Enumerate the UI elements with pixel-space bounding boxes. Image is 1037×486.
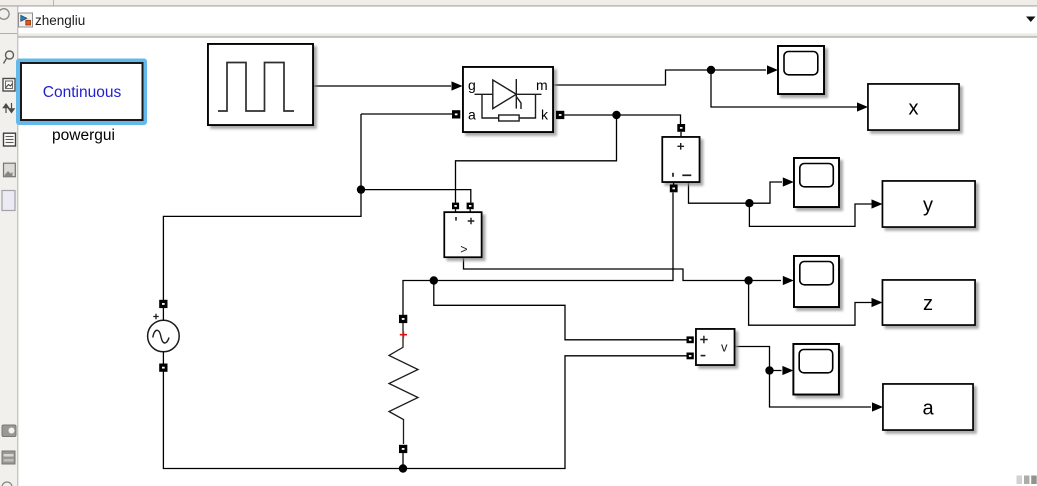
- node J6 y: [745, 199, 753, 207]
- powergui block (selected): [16, 59, 147, 126]
- thyristor k output port: [556, 111, 564, 119]
- block x: [868, 84, 959, 130]
- wire y junction to scope2: [749, 182, 782, 203]
- block y: [883, 181, 976, 227]
- wire node B to Vr + port: [434, 281, 687, 340]
- sidebar icon: magnifier: [4, 51, 14, 64]
- tab bar white: [18, 7, 1037, 34]
- svg-text:x: x: [909, 98, 919, 120]
- top lead: [402, 323, 404, 347]
- sine squiggle: [153, 330, 169, 343]
- thyristor block U1: [463, 67, 553, 132]
- Vab left port: [452, 203, 459, 213]
- arrow into scope4: [782, 366, 793, 375]
- Vab right port: [467, 203, 474, 213]
- sidebar icon: list document: [4, 133, 16, 146]
- rotated minus dash: [682, 174, 691, 176]
- sidebar icon: layers: [2, 451, 15, 464]
- block a: [883, 384, 973, 430]
- plus label: [677, 143, 684, 150]
- zigzag: [389, 347, 418, 444]
- bottom-right resize grip: [1017, 476, 1037, 485]
- svg-text:zhengliu: zhengliu: [35, 13, 85, 28]
- wire node K down to Vab left port: [456, 115, 617, 203]
- scope4: [793, 344, 839, 395]
- wire Vab output to scope3 z row: [464, 257, 782, 280]
- pulse generator block: [208, 44, 313, 125]
- sidebar icon: bottom partial circle: [2, 482, 12, 486]
- svg-text:z: z: [923, 293, 933, 315]
- wire node A to Vab + port: [361, 190, 471, 203]
- node B: [430, 276, 438, 284]
- arrow into thyristor g: [452, 81, 463, 90]
- tick label: [455, 217, 457, 221]
- svg-text:a: a: [922, 398, 934, 420]
- Vr - port: [687, 353, 694, 360]
- left sidebar: [0, 7, 18, 486]
- wire resistor bottom to bus: [402, 453, 404, 469]
- arrowheads: [452, 65, 884, 411]
- resistor bottom port: [399, 445, 407, 453]
- sidebar icon: image box: [3, 79, 15, 92]
- arrow into block z: [872, 298, 883, 307]
- wire junction to block x: [711, 70, 857, 107]
- wire Vr v output to a row junction: [735, 347, 782, 371]
- rotated v tick: [672, 173, 674, 177]
- svg-text:k: k: [541, 107, 549, 123]
- arrow into scope1: [767, 65, 778, 74]
- svg-text:a: a: [468, 107, 476, 123]
- wire bottom bus: source - to Vr - port: [163, 356, 686, 469]
- block z: [883, 280, 976, 325]
- resistor R1: [389, 323, 418, 444]
- scope2: [794, 158, 839, 207]
- snubber path: [482, 94, 499, 118]
- resistor top port: [399, 315, 407, 323]
- scope3: [794, 256, 839, 307]
- wire thyristor k to node K: [564, 114, 617, 116]
- thyristor a input port: [452, 110, 460, 118]
- Vak + port: [677, 124, 685, 136]
- wire y junction to block y: [749, 203, 871, 226]
- node R-bus: [399, 464, 407, 472]
- Vak measurement block (rotated, + top): [662, 137, 699, 182]
- sidebar icon: thumbnail: [4, 163, 16, 177]
- node J1: [707, 66, 715, 74]
- wire pulse to thyristor gate g: [313, 85, 451, 87]
- thyristor symbol: [475, 79, 542, 121]
- red polarity plus: [400, 331, 407, 338]
- minus label: [701, 355, 706, 357]
- svg-text:y: y: [923, 195, 933, 217]
- scope1: [778, 46, 824, 94]
- arrow into block a: [872, 402, 883, 411]
- arrow into scope3: [783, 276, 794, 285]
- wire thyristor m to scope1 junction: [553, 70, 766, 85]
- tab separator top: [53, 0, 55, 6]
- wire Vak - port down to node B: [434, 193, 673, 281]
- svg-text:v: v: [721, 340, 728, 355]
- Vr voltage measurement block: [696, 329, 735, 365]
- node A: [357, 185, 365, 193]
- tab bar bottom band: [18, 34, 1037, 37]
- leads: [162, 308, 164, 320]
- arrow into block x: [857, 102, 868, 111]
- node J7 z: [744, 276, 752, 284]
- sidebar icon: pan (partial circle): [0, 9, 9, 20]
- node K: [612, 111, 620, 119]
- node J8 a: [765, 366, 773, 374]
- arrow into block y: [872, 199, 883, 208]
- tab dropdown arrow: [1026, 17, 1036, 23]
- svg-text:m: m: [536, 77, 548, 93]
- wire node A to thyristor a port: [361, 113, 452, 115]
- svg-text:powergui: powergui: [52, 127, 115, 144]
- Vab measurement block (rotated, + top): [444, 212, 481, 257]
- polarity mark: [153, 314, 158, 319]
- AC voltage source V1: [148, 308, 180, 364]
- sidebar icon: swap arrows: [3, 103, 14, 113]
- source + port: [159, 300, 167, 308]
- source - port: [159, 364, 167, 372]
- svg-text:>: >: [460, 243, 467, 257]
- wire source + up to node A: [163, 114, 361, 300]
- arrow into scope2: [783, 177, 794, 186]
- sidebar icon: empty slot: [2, 191, 15, 211]
- tab model icon: [19, 13, 33, 27]
- pulse wave icon: [218, 63, 294, 112]
- svg-text:g: g: [468, 77, 476, 93]
- wire Vak v output to y row junction: [689, 182, 750, 203]
- Vak - port: [670, 182, 678, 192]
- svg-text:Continuous: Continuous: [43, 84, 122, 101]
- Vr + port: [687, 336, 694, 343]
- sidebar icon: camera: [2, 425, 16, 437]
- plus label: [700, 336, 708, 344]
- plus label: [468, 218, 475, 225]
- wire z junction to block z: [749, 281, 872, 326]
- top strip: [0, 0, 1037, 6]
- wire a junction to block a: [770, 371, 872, 408]
- wire node B to resistor top: [403, 281, 434, 316]
- wire node K to Vak + port: [617, 115, 681, 128]
